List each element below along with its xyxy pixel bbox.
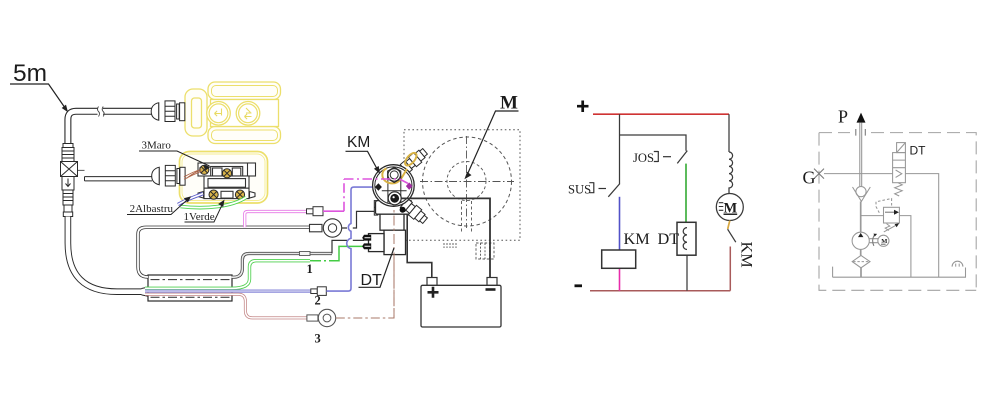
svg-text:KM: KM — [624, 229, 650, 248]
svg-text:1Verde: 1Verde — [184, 211, 215, 223]
svg-text:DT: DT — [658, 229, 680, 248]
svg-text:5m: 5m — [13, 60, 47, 87]
svg-text:2: 2 — [315, 294, 321, 308]
svg-text:P: P — [838, 107, 848, 127]
svg-text:KM: KM — [738, 242, 757, 268]
svg-text:1: 1 — [307, 262, 313, 276]
svg-text:M: M — [724, 201, 738, 217]
svg-text:G: G — [803, 168, 816, 188]
svg-text:3Maro: 3Maro — [142, 140, 172, 152]
svg-text:2Albastru: 2Albastru — [130, 203, 174, 215]
svg-text:M: M — [881, 238, 887, 245]
svg-text:DT: DT — [361, 272, 383, 289]
svg-text:KM: KM — [347, 134, 370, 151]
svg-text:DT: DT — [910, 144, 927, 158]
svg-text:3: 3 — [315, 332, 321, 346]
svg-text:JOS: JOS — [633, 151, 654, 165]
svg-text:SUS: SUS — [568, 183, 591, 197]
